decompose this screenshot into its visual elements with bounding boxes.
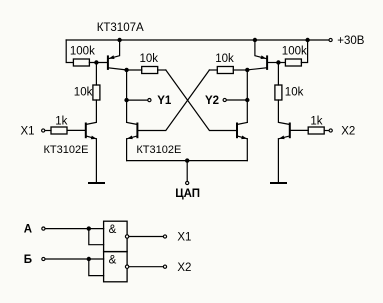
transistor VT1 PNP КТ3107А left (108, 40, 127, 70)
node Б (87, 257, 91, 261)
inversion bump DD1.2 (125, 265, 128, 268)
svg-text:X1: X1 (21, 125, 35, 137)
node rail-right (100k right) (305, 38, 309, 42)
node collector VT2 (245, 68, 249, 72)
wire 1k to X2 terminal (324, 130, 329, 132)
transistor VT4 NPN center-right (237, 122, 247, 160)
svg-text:А: А (24, 223, 32, 235)
resistor 10k cross left (140, 53, 159, 74)
terminal X1 out (163, 235, 166, 238)
resistor 10k left vertical (74, 85, 100, 100)
svg-text:10k: 10k (215, 53, 234, 65)
svg-text:КТ3102Е: КТ3102Е (44, 144, 89, 156)
terminal +30В (329, 38, 332, 41)
node base VT1 (94, 60, 98, 64)
svg-text:100k: 100k (70, 46, 95, 58)
svg-text:&: & (109, 254, 117, 266)
ground right (270, 182, 287, 184)
wire Y1 vertical (126, 70, 128, 123)
wire Y1 stub (127, 99, 148, 101)
wire common emitters U (127, 160, 248, 162)
node rail-left (emitter VT1) (117, 38, 121, 42)
svg-text:X2: X2 (341, 125, 355, 137)
svg-text:1k: 1k (310, 116, 322, 128)
terminal X1 (42, 129, 45, 132)
terminal А (42, 227, 45, 230)
resistor 100k left (70, 46, 95, 67)
resistor 1k left (51, 116, 68, 135)
inversion bump DD1.1 (125, 235, 128, 238)
wire А to gate (45, 228, 103, 230)
svg-text:КТ3102Е: КТ3102Е (136, 144, 181, 156)
svg-text:КТ3107А: КТ3107А (97, 22, 144, 34)
svg-text:100k: 100k (282, 46, 307, 58)
gate DD1.2 (104, 252, 128, 282)
svg-text:X1: X1 (177, 232, 191, 244)
terminal X2 (329, 129, 332, 132)
node Y2 (245, 98, 249, 102)
wire diagonal left-to-right (166, 70, 237, 131)
wire Б to gate (45, 258, 103, 260)
wire Б branch to second input (89, 259, 104, 276)
wire А branch to second input (89, 229, 104, 245)
transistor VT2 PNP КТ3107А right (247, 40, 278, 70)
terminal ЦАП (186, 181, 189, 184)
resistor 10k right vertical (275, 85, 304, 100)
terminal Y1 (148, 99, 151, 102)
wire Y2 stub (227, 99, 248, 101)
wire DD1.1 output (129, 236, 163, 238)
resistor 10k cross right (215, 53, 234, 74)
svg-text:ЦАП: ЦАП (175, 188, 200, 200)
transistor VT6 NPN КТ3102Е left (67, 100, 96, 182)
terminal Y2 (223, 98, 226, 101)
node rail-mid (emitter VT2) (253, 38, 257, 42)
wire 100k left to base node (89, 62, 107, 64)
transistor VT3 NPN КТ3102Е center-left (127, 122, 138, 160)
wire base node to 100k (278, 62, 285, 64)
wire collector node to 10k cross left (127, 69, 142, 71)
node Y1 (124, 98, 128, 102)
svg-text:Б: Б (24, 254, 32, 266)
wire 100k right up to rail (301, 40, 307, 63)
wire 10k cross right ends (209, 69, 217, 71)
terminal Б (42, 257, 45, 260)
wire DD1.2 output (129, 266, 163, 268)
svg-text:Y2: Y2 (205, 95, 219, 107)
svg-text:&: & (109, 224, 117, 236)
wire X1 terminal to 1k (45, 130, 51, 132)
svg-text:10k: 10k (285, 86, 304, 98)
transistor VT5 NPN КТ3102Е right (278, 100, 308, 182)
node collector VT1 (124, 68, 128, 72)
svg-text:X2: X2 (177, 262, 191, 274)
resistor 100k right (282, 46, 307, 67)
wire Y2 vertical (246, 70, 248, 123)
wire diagonal right-to-left (138, 70, 209, 131)
svg-text:10k: 10k (140, 53, 159, 65)
wire left drop from rail to 100k (66, 40, 73, 63)
wire DAC stub (186, 161, 188, 182)
svg-text:Y1: Y1 (157, 95, 172, 107)
terminal X2 out (163, 265, 166, 268)
resistor 1k right (308, 116, 324, 135)
svg-text:+30В: +30В (337, 35, 365, 47)
node base VT2 (276, 60, 280, 64)
wire 10k cross left to diagonal (158, 69, 166, 71)
wire base node down to 10k (95, 63, 97, 86)
gate DD1.1 (104, 221, 128, 251)
wire +30V top rail (66, 39, 329, 41)
ground left (88, 182, 105, 184)
wire base node down to 10k right (277, 63, 279, 86)
svg-text:1k: 1k (55, 116, 67, 128)
node А (87, 226, 91, 230)
node DAC (185, 158, 189, 162)
svg-text:10k: 10k (74, 86, 93, 98)
